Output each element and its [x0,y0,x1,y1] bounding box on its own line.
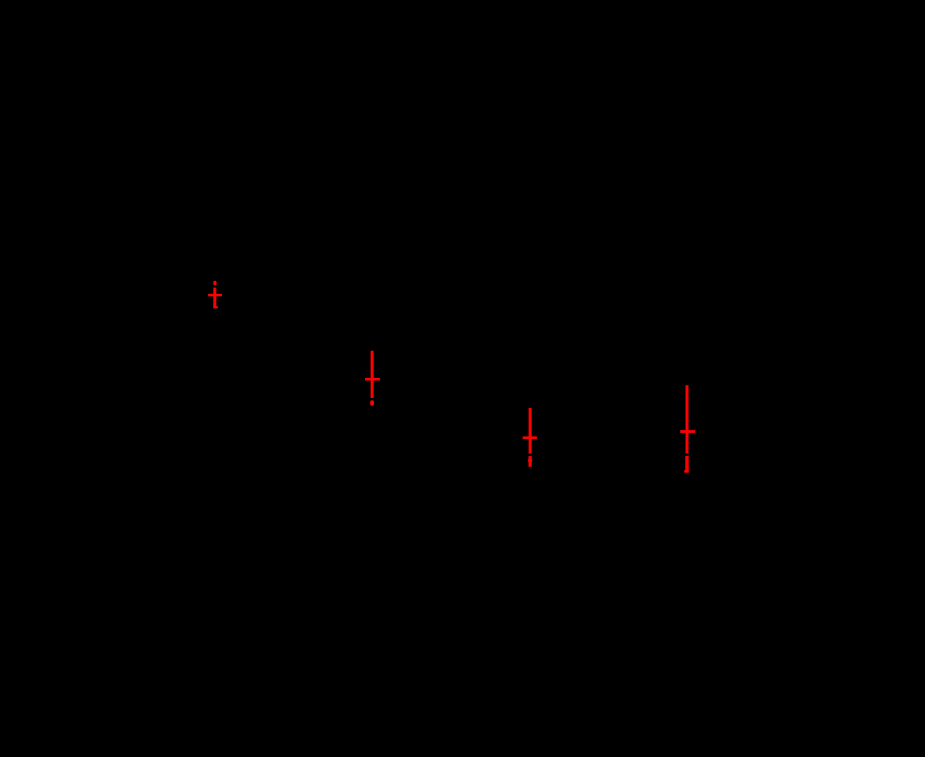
data point 2 dot marker [370,400,374,406]
data point 3 crossbar tick [523,436,537,439]
data point 3 lower error segment [529,456,532,467]
data point 4 error bar [686,385,689,453]
data point 1 lower nub [213,306,218,308]
data point 1 dot marker [213,281,216,286]
data point 4 crossbar tick [680,430,695,433]
data point 4 lower error segment [685,456,688,473]
data point 4 dot marker [684,470,688,473]
data point 2 error bar [371,351,374,398]
data point 1 error bar [213,288,216,309]
data point 3 error bar [529,408,532,454]
data point 2 crossbar tick [365,378,380,381]
data point 1 crossbar tick [208,294,222,297]
data point 3 dot marker [528,458,532,462]
